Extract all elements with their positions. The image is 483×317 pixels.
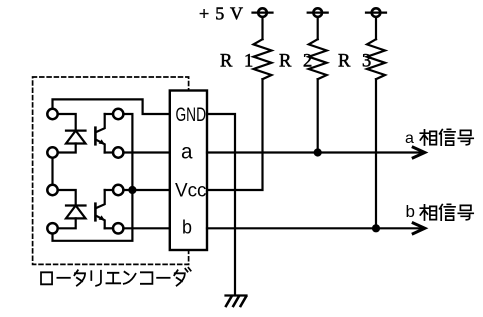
wire Q1 collector stub — [105, 113, 113, 115]
rotary encoder dashed enclosure — [33, 77, 189, 264]
emitter terminal E2 — [113, 223, 123, 233]
node Vcc junction dot — [128, 186, 136, 194]
wire T2 to R2 — [317, 17, 319, 39]
svg-text:Vcc: Vcc — [175, 180, 207, 202]
resistor R1 — [254, 39, 272, 79]
wire Q1 emitter stub — [105, 151, 113, 153]
LED D1 — [66, 131, 86, 144]
node A junction dot — [314, 148, 322, 156]
encoder terminal P3 — [47, 185, 57, 195]
wire P2 to P3 — [51, 158, 53, 185]
label b phase signal — [406, 202, 415, 221]
emitter terminal E1 — [113, 147, 123, 157]
wire Q2 emitter stub — [105, 227, 113, 229]
encoder terminal P1 — [47, 109, 57, 119]
encoder terminal P2 — [47, 147, 57, 157]
node B junction dot — [372, 224, 380, 232]
kanji a 相信号 — [420, 129, 473, 145]
svg-text:R 2: R 2 — [279, 52, 316, 72]
wire P1 over to GND pin — [53, 99, 170, 114]
phototransistor Q2 — [95, 190, 105, 228]
label a phase signal — [405, 130, 414, 147]
resistor R3 — [367, 39, 385, 79]
wire D2 anode to P4 — [58, 218, 76, 228]
LED D2 — [66, 206, 86, 219]
svg-text:+ 5 V: + 5 V — [199, 4, 244, 24]
wire P1 to LED D1 cathode — [58, 114, 76, 131]
svg-text:a: a — [405, 130, 414, 147]
svg-text:a: a — [181, 141, 193, 164]
IC U1 encoder interface box — [170, 91, 207, 251]
svg-text:b: b — [406, 202, 415, 221]
wire R3 to node B — [375, 79, 377, 228]
collector terminal C1 — [113, 109, 123, 119]
power terminal T1 (+5V) — [253, 8, 273, 17]
svg-text:R 1: R 1 — [220, 52, 257, 72]
encoder terminal P4 — [47, 223, 57, 233]
wire E1 to a pin — [123, 151, 169, 153]
kanji b 相信号 — [420, 204, 473, 220]
wire D1 anode to P2 — [58, 144, 76, 153]
resistor R2 — [309, 39, 327, 79]
arrow a output — [413, 147, 425, 158]
arrow b output — [413, 223, 425, 234]
ground — [226, 296, 247, 307]
wire GND pin to ground — [207, 114, 235, 295]
phototransistor Q1 — [95, 114, 105, 153]
collector terminal C2 — [113, 185, 123, 195]
wire C1 to Vcc rail — [53, 114, 133, 241]
svg-text:b: b — [182, 218, 192, 239]
wire P3 to LED D2 cathode — [58, 190, 76, 206]
power terminal T2 (+5V) — [308, 8, 328, 17]
wire a output — [207, 151, 423, 153]
wire T3 to R3 — [375, 17, 377, 39]
svg-text:GND: GND — [176, 105, 207, 126]
svg-text:R 3: R 3 — [338, 52, 375, 72]
wire T1 to R1 — [261, 17, 263, 39]
wire R1 to Vcc — [207, 79, 263, 190]
wire E2 to b pin — [123, 227, 169, 229]
wire C2 to Vcc pin — [123, 189, 169, 191]
power terminal T3 (+5V) — [366, 8, 386, 17]
wire R2 to node A — [317, 79, 319, 152]
wire b output — [207, 227, 423, 229]
wire Q2 collector stub — [105, 189, 113, 191]
label rotary encoder katakana — [41, 268, 191, 286]
